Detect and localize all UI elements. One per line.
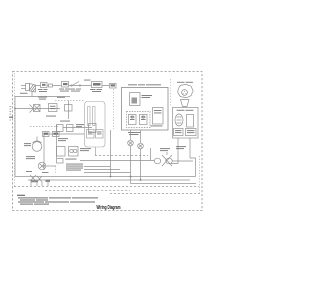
svg-text:Wiring Diagram: Wiring Diagram <box>97 205 121 211</box>
